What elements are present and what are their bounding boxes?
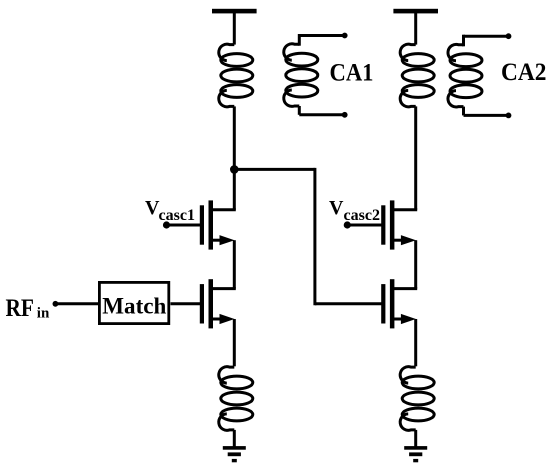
wire interstage (v) — [313, 169, 316, 303]
inductor CA2 loop 3 — [450, 85, 482, 98]
wire M2 source to M1 drain — [233, 240, 236, 288]
transistor M1 (input 1) — [200, 279, 236, 328]
svg-text:CA2: CA2 — [501, 59, 547, 86]
wire M4 source to M3 drain — [414, 240, 417, 288]
transistor M3: gate bar — [381, 284, 385, 323]
power rail VDD1 (VDD bar) — [212, 9, 257, 14]
transistor M2: gate bar — [200, 205, 204, 244]
ground GND1 — [223, 446, 246, 462]
terminal dot CA2 bottom — [506, 113, 512, 119]
wire L1 to node A — [233, 106, 236, 169]
inductor L1 loop 3 — [221, 85, 253, 98]
inductor L1 coil top hook — [219, 44, 235, 60]
transistor M2 (cascode 1) — [200, 200, 236, 249]
transistor M3: source arrow — [401, 314, 416, 324]
inductor CA1 loop 3 — [286, 84, 318, 97]
wire RFin to Match — [55, 302, 98, 305]
wire node A to M2 drain — [233, 169, 236, 209]
transistor M4: drain tap — [394, 208, 417, 211]
svg-text:casc1: casc1 — [159, 207, 196, 224]
inductor L2 coil bottom hook — [400, 90, 416, 106]
terminal dot Vcasc2 — [344, 221, 351, 228]
transistor M1: drain tap — [213, 287, 236, 290]
inductor L4 loop 1 — [402, 376, 434, 389]
transistor M3: drain tap — [394, 287, 417, 290]
transistor M3 (input 2) — [381, 279, 417, 328]
svg-text:V: V — [329, 197, 344, 219]
wire M1 source to L3 — [233, 319, 236, 366]
wire L4 to ground — [414, 430, 417, 447]
inductor CA2 coil bottom hook — [448, 91, 464, 107]
transistor M2: source arrow — [220, 235, 235, 245]
wire CA2 top stub — [462, 36, 465, 45]
node A (drain of M2 / interstage) — [230, 165, 239, 174]
inductor L1 coil bottom hook — [219, 90, 235, 106]
svg-text:RF: RF — [6, 293, 35, 322]
wire CA1 bottom stub — [298, 106, 301, 115]
inductor L4 loop 2 — [402, 392, 434, 405]
inductor CA2 loop 1 — [450, 54, 482, 67]
inductor L3 coil bottom hook — [219, 414, 235, 430]
wire CA2 top terminal — [464, 35, 509, 38]
transistor M4: source tap — [394, 239, 406, 242]
transistor M4: gate bar — [381, 205, 385, 244]
terminal dot CA1 bottom — [342, 112, 348, 118]
inductor L3 loop 3 — [221, 408, 253, 421]
wire interstage to M3 gate — [315, 302, 382, 305]
wire CA1 top stub — [298, 36, 301, 45]
inductor L3 loop 2 — [221, 392, 253, 405]
inductor CA1 coil bottom hook — [284, 90, 300, 106]
inductor CA2 coil top hook — [448, 44, 464, 60]
wire Vcasc1 to M2 gate — [167, 224, 201, 227]
wire node A to interstage (h) — [234, 168, 315, 171]
transistor M1: source arrow — [220, 314, 235, 324]
svg-text:CA1: CA1 — [330, 60, 374, 87]
svg-text:in: in — [37, 305, 50, 321]
inductor L3 loop 1 — [221, 376, 253, 389]
wire CA2 bottom stub — [462, 107, 465, 116]
inductor L2 loop 1 — [402, 54, 434, 67]
inductor L4 loop 3 — [402, 408, 434, 421]
transistor M1: source tap — [213, 318, 225, 321]
wire Match to M1 gate — [171, 302, 201, 305]
ground GND2 — [404, 446, 427, 462]
terminal dot Vcasc1 — [163, 221, 170, 228]
transistor M2: channel bar — [209, 200, 214, 249]
svg-text:Match: Match — [102, 294, 166, 319]
inductor L2 coil top hook — [400, 44, 416, 60]
transistor M2: drain tap — [213, 208, 236, 211]
inductor CA1 loop 2 — [286, 69, 318, 82]
terminal dot CA1 top — [342, 33, 348, 39]
inductor CA1 loop 1 — [286, 53, 318, 66]
transistor M1: channel bar — [209, 279, 214, 328]
power rail VDD2 (VDD bar) — [393, 9, 438, 14]
transistor M3: source tap — [394, 318, 406, 321]
transistor M3: channel bar — [390, 279, 395, 328]
inductor L4 coil bottom hook — [400, 414, 416, 430]
terminal dot RFin — [53, 301, 59, 307]
inductor L2 loop 2 — [402, 69, 434, 82]
transistor M4 (cascode 2) — [381, 200, 417, 249]
svg-text:casc2: casc2 — [344, 207, 381, 224]
wire CA1 top terminal — [299, 34, 344, 37]
transistor M2: source tap — [213, 239, 225, 242]
inductor L1 loop 1 — [221, 54, 253, 67]
transistor M4: channel bar — [390, 200, 395, 249]
terminal dot CA2 top — [506, 33, 512, 39]
wire VDD2 stem — [414, 13, 417, 45]
inductor L2 loop 3 — [402, 85, 434, 98]
wire CA2 bottom terminal — [464, 114, 509, 117]
wire Vcasc2 to M4 gate — [347, 224, 382, 227]
inductor L3 coil top hook — [219, 367, 235, 383]
inductor CA2 loop 2 — [450, 69, 482, 82]
matching network block "Match" — [99, 282, 168, 323]
wire L3 to ground — [233, 430, 236, 447]
inductor CA1 coil top hook — [284, 44, 300, 60]
wire M3 source to L4 — [414, 319, 417, 366]
wire VDD1 stem — [233, 13, 236, 45]
wire L2 to M4 drain — [414, 106, 417, 209]
transistor M1: gate bar — [200, 284, 204, 323]
inductor L1 loop 2 — [221, 69, 253, 82]
transistor M4: source arrow — [401, 235, 416, 245]
wire CA1 bottom terminal — [299, 113, 344, 116]
inductor L4 coil top hook — [400, 367, 416, 383]
